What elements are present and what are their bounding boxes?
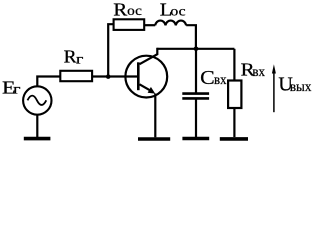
svg-text:C: C <box>200 67 215 89</box>
svg-text:вых: вых <box>290 80 312 95</box>
svg-text:г: г <box>76 52 84 67</box>
arrow Uвых <box>273 72 275 112</box>
ground under Rвх <box>220 137 248 141</box>
svg-text:ос: ос <box>127 4 142 19</box>
transistor Q1 circle <box>125 56 167 98</box>
wire source-top to Rг <box>37 77 60 87</box>
node collector junction dot <box>194 47 199 52</box>
svg-text:ос: ос <box>170 4 185 19</box>
ground under emitter <box>138 137 170 141</box>
wire Rвх bottom lead <box>233 108 235 137</box>
wire emitter vertical <box>154 94 156 138</box>
wire collector lead <box>140 48 158 64</box>
ground under capacitor <box>182 137 209 141</box>
svg-text:вх: вх <box>214 73 227 88</box>
svg-text:R: R <box>113 0 127 19</box>
node base junction dot <box>106 74 111 79</box>
AC source sine wave <box>28 96 47 105</box>
wire Rг to base <box>92 75 138 77</box>
ground under source <box>24 137 51 141</box>
svg-text:г: г <box>13 83 21 98</box>
wire collector horizontal line <box>157 48 234 50</box>
capacitor C1 "Cвх" bottom plate <box>182 97 209 100</box>
inductor L1 "Lос" humps <box>155 21 186 26</box>
wire feedback vertical up from base node <box>108 24 113 76</box>
wire source bottom stem <box>36 115 38 137</box>
resistor R2 "Rос" body <box>114 19 145 30</box>
resistor R1 "Rг" body <box>60 71 92 81</box>
capacitor C1 "Cвх" top plate <box>182 92 209 95</box>
transistor Q1 base bar <box>137 62 140 90</box>
AC source E1 circle <box>23 86 51 114</box>
svg-text:R: R <box>64 46 77 66</box>
wire Rвх top lead <box>233 49 235 81</box>
wire Rос to Lос <box>145 24 156 26</box>
resistor R3 "Rвх" body <box>228 81 241 109</box>
wire Lос right down to collector line <box>186 25 196 49</box>
wire Cвх bottom lead <box>195 100 197 138</box>
transistor Q1 emitter with arrow <box>140 84 152 91</box>
svg-text:вх: вх <box>252 65 265 80</box>
wire Cвх top lead <box>195 49 197 93</box>
